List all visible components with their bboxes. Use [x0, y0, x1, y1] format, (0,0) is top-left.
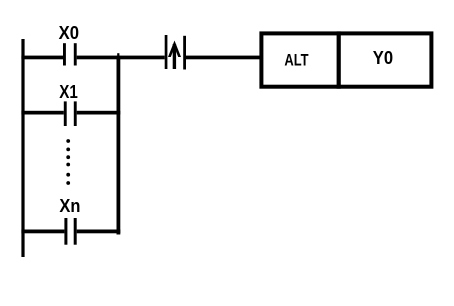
contact X1	[64, 101, 77, 126]
ellipsis dots	[66, 139, 70, 185]
wire rung2 X1 to branch	[77, 111, 121, 115]
pulse contact (rising edge)	[165, 35, 186, 70]
svg-text:Xn: Xn	[59, 196, 80, 216]
junction nub	[117, 53, 119, 56]
wire rung1 X0 to pulse contact	[77, 56, 165, 60]
contact X0	[63, 43, 77, 65]
svg-text:ALT: ALT	[284, 51, 309, 70]
wire rung3 Xn to branch	[77, 230, 121, 234]
contact Xn	[64, 218, 76, 245]
vertical branch wire	[117, 56, 121, 235]
function block divider	[337, 31, 341, 88]
wire rung1 pulse contact to block	[186, 56, 260, 60]
function block outline	[261, 33, 431, 86]
left power rail	[21, 39, 24, 257]
svg-text:X0: X0	[59, 23, 79, 43]
svg-text:X1: X1	[59, 82, 78, 102]
wire rung2 rail to X1	[21, 111, 63, 115]
svg-text:Y0: Y0	[373, 48, 393, 68]
wire rung1 rail to X0	[21, 56, 63, 60]
wire rung3 rail to Xn	[21, 230, 64, 234]
